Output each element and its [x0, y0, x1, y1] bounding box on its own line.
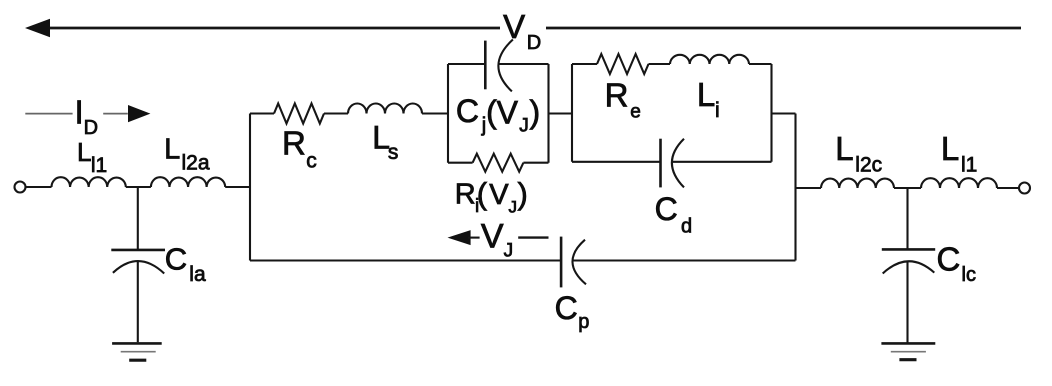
- junction RC box right edge: [547, 64, 549, 163]
- wire port to L_l1: [26, 186, 52, 188]
- inductor L_i: [670, 55, 749, 64]
- wire L_s to junction box: [422, 112, 448, 114]
- svg-text:I: I: [75, 94, 84, 131]
- ground (left): [112, 342, 162, 345]
- left port terminal: [15, 182, 26, 193]
- svg-text:J: J: [504, 241, 513, 262]
- wire R_c to L_s: [324, 112, 348, 114]
- wire C_la to ground: [137, 262, 139, 343]
- inductor L_l1 (right): [921, 178, 997, 188]
- wire box1 to box2: [549, 112, 573, 114]
- svg-text:L: L: [77, 137, 91, 167]
- I_D sense line right: [103, 113, 128, 115]
- V_D dimension arrow line (left segment): [48, 27, 500, 30]
- svg-text:i: i: [715, 99, 720, 122]
- wire L_l2c to L_l1 (node C): [894, 187, 921, 189]
- svg-text:L: L: [941, 130, 959, 167]
- wire to R_c: [250, 112, 274, 114]
- svg-text:): ): [518, 176, 528, 211]
- inductor L_l2c: [821, 179, 894, 188]
- svg-text:(: (: [486, 94, 497, 130]
- svg-text:C: C: [456, 93, 479, 129]
- capacitor C_lc curved plate: [883, 261, 935, 273]
- svg-text:l2a: l2a: [182, 151, 210, 174]
- resistor R_i: [473, 154, 524, 172]
- svg-text:L: L: [164, 133, 180, 165]
- svg-text:R: R: [605, 76, 629, 113]
- diffusion box left edge: [571, 64, 573, 162]
- V_D dimension line (right segment): [546, 27, 1021, 30]
- capacitor C_j curved plate: [498, 40, 513, 92]
- capacitor C_la curved plate: [113, 261, 164, 273]
- svg-text:R: R: [282, 125, 306, 162]
- wire box2 bottom-right: [672, 161, 772, 163]
- wire box top-left: [448, 63, 485, 65]
- svg-text:l2c: l2c: [855, 154, 882, 177]
- capacitor C_la top plate: [111, 249, 165, 252]
- wire box bottom-left: [448, 162, 473, 164]
- I_D arrowhead: [128, 105, 150, 122]
- svg-text:c: c: [306, 150, 317, 173]
- svg-text:V: V: [503, 8, 525, 45]
- ground (right): [881, 342, 935, 345]
- svg-text:d: d: [681, 216, 692, 238]
- resistor R_c: [274, 104, 324, 124]
- svg-text:C: C: [937, 241, 961, 278]
- svg-text:p: p: [578, 311, 589, 333]
- junction RC box left edge: [447, 64, 449, 163]
- svg-text:lc: lc: [962, 264, 976, 286]
- wire L_l1 to right port: [997, 187, 1019, 189]
- inductor L_s: [348, 104, 422, 114]
- I_D sense line left: [25, 113, 72, 115]
- resistor R_e: [597, 54, 649, 74]
- svg-text:J: J: [519, 115, 529, 136]
- wire box2 to right vertical: [772, 112, 796, 114]
- svg-text:L: L: [697, 76, 715, 113]
- V_J arrow stub: [468, 237, 480, 239]
- capacitor C_lc top plate: [882, 248, 935, 251]
- svg-text:V: V: [489, 179, 509, 211]
- svg-text:R: R: [455, 178, 476, 210]
- svg-text:la: la: [189, 263, 206, 286]
- V_J arrowhead: [448, 230, 471, 245]
- wire L_l1 to L_l2a (node A): [126, 186, 151, 188]
- svg-text:J: J: [509, 197, 518, 216]
- svg-text:V: V: [497, 94, 519, 130]
- left vertical wire: [249, 114, 251, 261]
- bottom branch wire left: [250, 259, 561, 261]
- svg-text:): ): [530, 94, 541, 130]
- wire box top-right: [498, 63, 548, 65]
- svg-text:C: C: [655, 191, 678, 227]
- node A drop wire to C_la: [137, 187, 139, 249]
- svg-text:l1: l1: [91, 154, 107, 177]
- wire box2 bottom-left: [572, 161, 661, 163]
- wire L_i to box corner: [749, 63, 772, 65]
- svg-text:D: D: [527, 32, 541, 54]
- wire box2 top-left: [572, 63, 597, 65]
- wire box bottom-right: [523, 162, 548, 164]
- wire R_e to L_i: [649, 63, 671, 65]
- svg-text:D: D: [84, 117, 98, 139]
- svg-text:L: L: [835, 130, 853, 167]
- svg-text:l1: l1: [961, 154, 977, 177]
- diffusion box right edge: [770, 64, 772, 162]
- svg-text:V: V: [481, 218, 504, 256]
- V_J sense line right: [518, 236, 548, 238]
- wire C_lc to ground: [906, 262, 908, 343]
- capacitor C_d curved plate: [672, 139, 684, 188]
- svg-text:e: e: [630, 102, 641, 123]
- capacitor C_d straight plate: [659, 139, 662, 188]
- right vertical wire: [794, 114, 796, 261]
- right port terminal: [1019, 183, 1030, 194]
- capacitor C_p straight plate: [560, 237, 563, 288]
- svg-text:(: (: [477, 176, 488, 211]
- wire L_l2a to left vertical: [225, 186, 250, 188]
- V_D arrowhead: [25, 19, 50, 37]
- inductor L_l1 (left): [52, 177, 126, 187]
- bottom branch wire right: [573, 259, 796, 261]
- node C drop wire to C_lc: [906, 188, 908, 249]
- right branch wire from vertical: [796, 187, 822, 189]
- svg-text:C: C: [165, 242, 187, 277]
- capacitor C_p curved plate: [572, 240, 586, 285]
- svg-text:s: s: [388, 141, 399, 164]
- capacitor C_j straight plate: [484, 41, 487, 90]
- inductor L_l2a: [151, 177, 225, 187]
- svg-text:C: C: [555, 290, 578, 326]
